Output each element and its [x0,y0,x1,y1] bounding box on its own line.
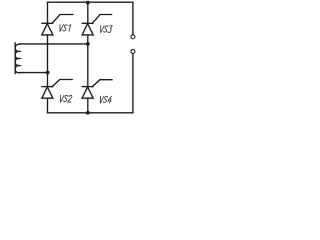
thyristor VS1 [42,15,73,35]
thyristor VS4 [82,80,112,99]
inductor winding L1 [15,44,20,73]
wire left rail lower [47,98,49,113]
thyristor VS2 [42,80,72,99]
inductor core [14,43,16,73]
wire top bus [48,1,133,3]
thyristor VS3 [82,15,112,35]
label VS2 [59,95,72,102]
wire bottom bus [48,112,133,114]
wire mid rail upper [87,2,89,23]
wire right rail lower [132,54,134,113]
label VS1 [58,25,70,32]
label VS3 [99,26,112,33]
label VS4 [99,96,113,103]
node coil-top junction [86,42,90,46]
wire mid rail middle [87,35,89,87]
node coil-bottom junction [46,71,50,75]
wire coil top lead [20,43,88,45]
wire left rail middle [47,35,49,87]
wire coil bottom lead [20,72,48,74]
terminal output minus [131,49,135,53]
wire left rail upper [47,2,49,23]
terminal output plus [131,35,135,39]
node bottom bus junction [86,111,90,115]
node top bus junction [86,1,90,5]
wire mid rail lower [87,98,89,113]
wire right rail upper [132,2,134,34]
